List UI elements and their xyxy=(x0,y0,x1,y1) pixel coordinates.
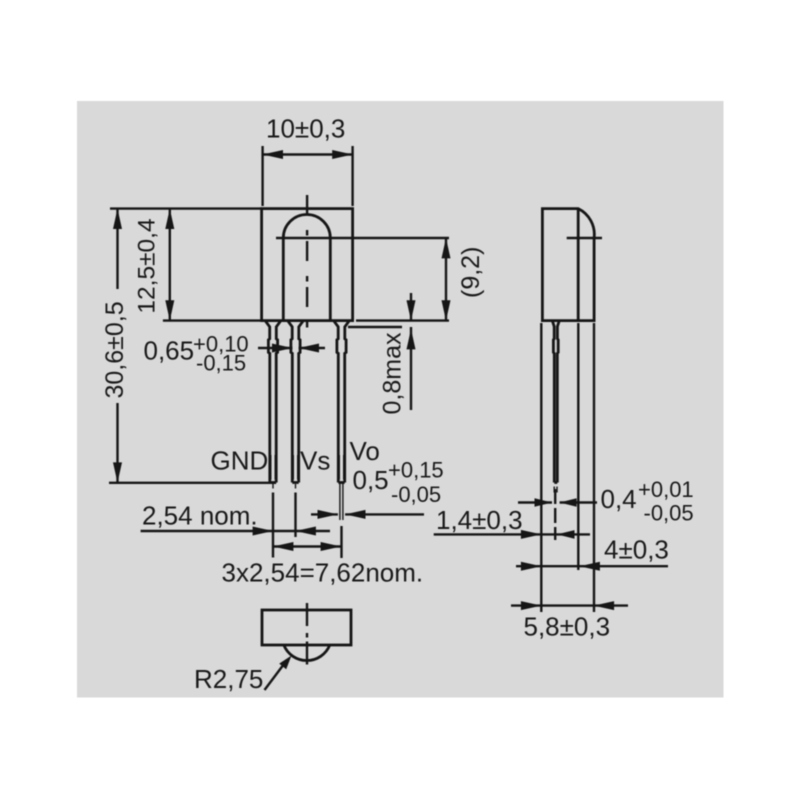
dimension (9,2) xyxy=(356,238,485,321)
dimension 3x2,54=7,62nom. xyxy=(222,542,424,588)
pin Vs centerline xyxy=(295,484,297,489)
svg-text:0,5: 0,5 xyxy=(353,465,389,495)
dimension 2,54 nom. xyxy=(141,501,330,536)
dimension 12,5±0,4 xyxy=(134,209,262,321)
svg-text:GND: GND xyxy=(211,446,269,476)
svg-text:10±0,3: 10±0,3 xyxy=(266,114,345,144)
dimension 0,65 +0,10 -0,15 xyxy=(144,332,326,376)
bottom view centerline xyxy=(306,603,308,667)
side view body outline xyxy=(542,209,594,321)
side extension lines xyxy=(540,323,542,612)
front view body outline xyxy=(262,209,353,321)
lens shoulder line (extension for 9,2) xyxy=(276,237,449,239)
pin (side view) xyxy=(553,320,559,493)
svg-text:(9,2): (9,2) xyxy=(457,247,485,298)
svg-text:2,54 nom.: 2,54 nom. xyxy=(142,501,258,531)
svg-text:-0,05: -0,05 xyxy=(644,501,694,526)
svg-text:+0,15: +0,15 xyxy=(388,458,444,483)
front view vertical centerline xyxy=(306,195,308,331)
side pin centerline xyxy=(554,489,556,540)
bottom view rectangle xyxy=(262,610,351,645)
dimension 1,4±0,3 xyxy=(434,505,590,539)
dimension 0,8max xyxy=(348,293,416,415)
svg-text:-0,15: -0,15 xyxy=(196,351,246,376)
pin GND centerline xyxy=(272,484,274,489)
dimension 10±0,3 xyxy=(263,114,353,207)
dimension 4±0,3 xyxy=(516,535,669,571)
gray drawing panel xyxy=(77,101,724,698)
dimension 0,4 +0,01 -0,05 xyxy=(518,477,694,526)
pin Vo centerline xyxy=(340,526,342,558)
svg-text:3x2,54=7,62nom.: 3x2,54=7,62nom. xyxy=(222,558,424,588)
front view lens dome xyxy=(283,214,330,320)
bottom view lens arc R2,75 xyxy=(284,645,330,661)
svg-text:-0,05: -0,05 xyxy=(391,482,441,507)
R2,75 label and leader arrow xyxy=(194,656,292,695)
svg-text:0,4: 0,4 xyxy=(601,484,637,514)
dimension 5,8±0,3 xyxy=(511,601,628,641)
svg-text:1,4±0,3: 1,4±0,3 xyxy=(436,505,523,535)
pin GND (front) xyxy=(266,320,280,483)
svg-text:Vo: Vo xyxy=(350,436,380,466)
side shoulder tick xyxy=(567,237,602,239)
svg-text:4±0,3: 4±0,3 xyxy=(604,535,669,565)
svg-text:R2,75: R2,75 xyxy=(194,664,263,694)
pin Vs (front) xyxy=(289,320,303,483)
svg-text:Vs: Vs xyxy=(300,446,330,476)
dimension 0,5 +0,15 -0,05 xyxy=(311,458,444,519)
svg-text:5,8±0,3: 5,8±0,3 xyxy=(524,612,611,642)
svg-text:30,6±0,5: 30,6±0,5 xyxy=(101,301,129,398)
dimension 30,6±0,5 xyxy=(101,209,276,483)
pin Vo (front) xyxy=(335,320,349,521)
svg-text:+0,01: +0,01 xyxy=(638,477,694,502)
svg-text:0,8max: 0,8max xyxy=(379,332,407,414)
svg-text:12,5±0,4: 12,5±0,4 xyxy=(134,218,161,313)
svg-text:0,65: 0,65 xyxy=(144,336,195,366)
side view inner line xyxy=(577,209,580,321)
